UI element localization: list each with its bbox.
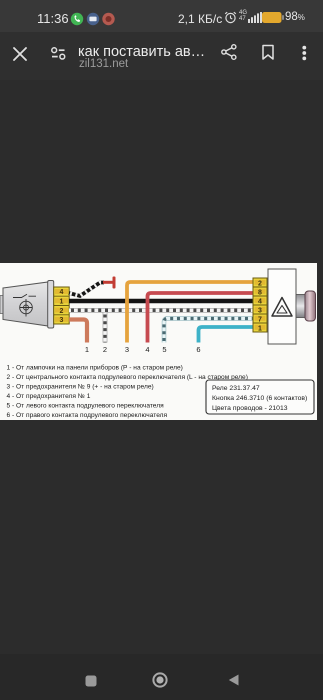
wire relay-1 to switch-4 (black) (69, 299, 253, 303)
svg-text:4: 4 (60, 289, 64, 296)
svg-text:2: 2 (60, 308, 64, 315)
wire relay-2 to switch-3 (grey striped) (69, 308, 253, 313)
switch button cap (305, 291, 316, 321)
hazard triangle symbol (272, 298, 292, 317)
svg-text:8: 8 (258, 289, 262, 296)
svg-text:5: 5 (162, 345, 166, 354)
menu dots (301, 45, 308, 62)
svg-text:2: 2 (103, 345, 107, 354)
wire end labels 1-6 (85, 345, 201, 354)
svg-text:1 - От лампочки на панели приб: 1 - От лампочки на панели приборов (Р - … (7, 364, 183, 372)
svg-text:7: 7 (258, 316, 262, 323)
svg-text:Кнопка 246.3710 (6 контактов): Кнопка 246.3710 (6 контактов) (212, 395, 307, 402)
alarm icon (224, 11, 237, 24)
wire 5 (light-blue striped) (164, 319, 253, 343)
notification icons (70, 12, 115, 26)
svg-text:1: 1 (85, 345, 89, 354)
relay internal coil symbol (20, 299, 33, 317)
wire relay-4 to junction (black/white striped) (69, 283, 104, 297)
tune icon (50, 47, 67, 60)
white photo area with wiring diagram (0, 263, 317, 420)
switch button shaft (296, 295, 306, 318)
svg-text:3 - От предохранителя № 9 (+ -: 3 - От предохранителя № 9 (+ - на старом… (7, 384, 154, 391)
browser toolbar (0, 32, 323, 80)
svg-text:4 - От предохранителя № 1: 4 - От предохранителя № 1 (7, 393, 91, 400)
relay K1 body (0, 282, 48, 326)
battery (262, 12, 284, 23)
switch terminal strip (2,8,4,3,7,1) (253, 278, 267, 332)
svg-text:6: 6 (196, 345, 200, 354)
share icon (221, 44, 237, 60)
svg-text:1: 1 (258, 325, 262, 332)
close X (13, 47, 27, 61)
hazard switch S1 body (268, 269, 296, 344)
svg-text:Цвета проводов - 21013: Цвета проводов - 21013 (212, 405, 288, 412)
bookmark icon (261, 44, 275, 61)
wire 2 vertical drop (grey striped) (103, 313, 108, 343)
4G + bars (239, 10, 247, 22)
svg-text:4: 4 (258, 298, 262, 305)
parts info box (206, 380, 314, 414)
wire 1 from relay-3 (salmon) (69, 320, 87, 343)
relay terminal strip (4,1,2,3) (54, 287, 69, 324)
wire 4 (red) (148, 293, 254, 343)
status bar (0, 0, 323, 32)
svg-text:1: 1 (60, 299, 64, 306)
caption list (7, 364, 248, 420)
svg-text:4: 4 (145, 345, 149, 354)
wire 6 (cyan) (199, 327, 254, 343)
svg-text:3: 3 (258, 307, 262, 314)
svg-text:3: 3 (125, 345, 129, 354)
android nav bar (0, 654, 323, 700)
relay internal contact symbol (13, 294, 36, 297)
svg-text:3: 3 (60, 317, 64, 324)
wire 3 (orange) (127, 282, 253, 343)
svg-text:Реле 231.37.47: Реле 231.37.47 (212, 385, 260, 392)
svg-text:2: 2 (258, 280, 262, 287)
svg-text:6 - От правого контакта подрул: 6 - От правого контакта подрулевого пере… (7, 412, 168, 419)
junction tap (red T connector) (103, 277, 116, 289)
svg-text:5 - От левого контакта подруле: 5 - От левого контакта подрулевого перек… (7, 403, 165, 410)
relay mounting bar (48, 281, 54, 329)
